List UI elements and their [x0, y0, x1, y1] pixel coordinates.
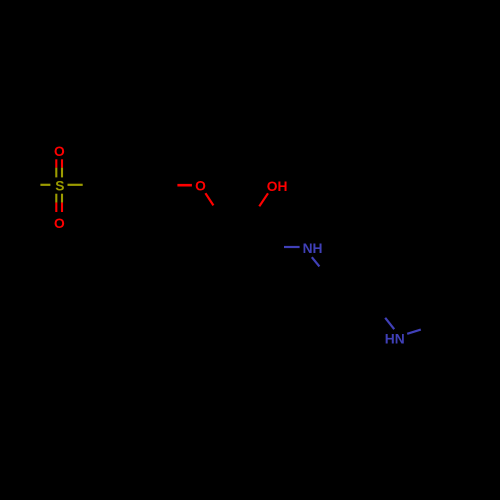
- sulfonyl S1: [40, 168, 82, 203]
- wire CH2-NH half-bond: [284, 246, 300, 248]
- wire NH-CH2 half-bond: [312, 257, 320, 266]
- svg-text:O: O: [195, 179, 206, 194]
- ether oxygen O: [177, 179, 213, 206]
- svg-text:O: O: [54, 144, 65, 159]
- secondary amine NH: [284, 241, 323, 266]
- S=O top double bond olive halves: [55, 168, 57, 178]
- indole HN: [385, 318, 421, 347]
- S=O top double bond red halves: [55, 159, 57, 167]
- hydroxyl OH: [259, 179, 287, 206]
- wire C-OH half-bond: [259, 193, 268, 206]
- svg-text:S: S: [55, 179, 64, 194]
- S=O bottom double bond olive halves: [55, 194, 57, 203]
- svg-text:OH: OH: [267, 179, 288, 194]
- wire CH3-S half-bond: [40, 184, 50, 186]
- S=O bottom double bond red halves: [55, 203, 57, 212]
- sulfonyl oxygen O bottom: [54, 203, 65, 231]
- svg-text:HN: HN: [385, 331, 405, 346]
- sulfonyl oxygen O top: [54, 144, 65, 168]
- wire ring-O half-bond: [177, 184, 192, 187]
- wire C2-N half-bond: [385, 318, 394, 329]
- svg-text:O: O: [54, 216, 65, 231]
- wire O-CH2 half-bond: [205, 193, 213, 205]
- wire N-C7a half-bond: [407, 330, 421, 334]
- svg-text:NH: NH: [303, 241, 323, 256]
- wire S-ring half-bond: [68, 184, 83, 186]
